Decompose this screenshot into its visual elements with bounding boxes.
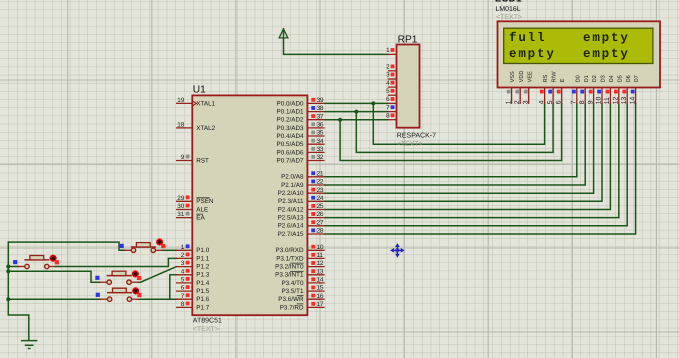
- svg-text:21: 21: [317, 170, 325, 177]
- U1 pin 34 (P0.5/AD5): [277, 138, 325, 148]
- svg-text:ALE: ALE: [196, 206, 208, 213]
- svg-text:P0.6/AD6: P0.6/AD6: [277, 149, 304, 156]
- svg-text:5: 5: [547, 100, 554, 104]
- svg-text:P3.5/T1: P3.5/T1: [281, 288, 304, 295]
- svg-text:P0.5/AD5: P0.5/AD5: [277, 141, 304, 148]
- svg-text:39: 39: [317, 97, 325, 104]
- LCD pin 11 (D4): [604, 75, 615, 104]
- svg-text:full: full: [509, 31, 546, 45]
- svg-text:P0.7/AD7: P0.7/AD7: [277, 157, 304, 164]
- U1 pin 35 (P0.4/AD4): [277, 130, 325, 140]
- svg-text:16: 16: [317, 293, 325, 300]
- LCD pin 12 (D5): [613, 75, 624, 104]
- svg-text:2: 2: [514, 100, 521, 104]
- svg-text:P2.0/A8: P2.0/A8: [281, 174, 304, 181]
- wire: U1 P2.5 to LCD D5: [325, 104, 619, 218]
- svg-text:P3.6/WR: P3.6/WR: [278, 296, 304, 303]
- U1 pin 31 (EA): [176, 211, 205, 221]
- U1 pin 29 (PSEN): [176, 195, 214, 205]
- svg-text:8: 8: [386, 113, 390, 120]
- junction node P0.0: [371, 101, 375, 105]
- svg-text:RST: RST: [196, 157, 209, 164]
- wire: P0.2 net drop to LCD E: [340, 104, 561, 161]
- wire: U1 P2.7 to LCD D7: [325, 104, 636, 234]
- svg-text:31: 31: [177, 211, 185, 218]
- U1 pin 12 (P3.2/INT0): [275, 260, 324, 270]
- LCD pin 6 (E): [555, 78, 566, 104]
- svg-text:U1: U1: [193, 85, 206, 96]
- LCD pin 2 (VDD): [514, 71, 525, 105]
- U1 pin 2 (P1.1): [176, 252, 210, 262]
- svg-text:P1.4: P1.4: [196, 280, 209, 287]
- svg-text:P1.7: P1.7: [196, 304, 209, 311]
- wire: power rail to RP1 pin 1: [284, 29, 388, 55]
- svg-text:P1.1: P1.1: [196, 255, 209, 262]
- svg-text:37: 37: [317, 113, 325, 120]
- svg-text:22: 22: [317, 179, 325, 186]
- svg-text:6: 6: [181, 285, 185, 292]
- svg-text:5: 5: [181, 277, 185, 284]
- U1 pin 13 (P3.3/INT1): [275, 268, 324, 278]
- svg-text:RP1: RP1: [398, 34, 418, 45]
- U1 pin 30 (ALE): [176, 203, 208, 213]
- U1 pin 10 (P3.0/RXD): [276, 244, 325, 254]
- svg-text:15: 15: [317, 285, 325, 292]
- wire: U1 P2.1 to LCD D1: [325, 104, 586, 185]
- U1 pin 8 (P1.7): [176, 301, 210, 311]
- svg-text:P1.6: P1.6: [196, 296, 209, 303]
- wire: button A to U1 P1.0: [162, 249, 176, 251]
- wire: button C left to bus: [8, 271, 100, 282]
- svg-text:11: 11: [317, 252, 324, 259]
- svg-text:3: 3: [181, 260, 185, 267]
- U1 pin 5 (P1.4): [176, 277, 210, 287]
- U1 pin 22 (P2.1/A9): [281, 179, 325, 189]
- svg-text:P1.2: P1.2: [196, 264, 209, 271]
- RP1 pin 5: [386, 88, 396, 95]
- RP1 pin 4: [386, 80, 396, 87]
- svg-text:3: 3: [522, 100, 529, 104]
- U1 pin 4 (P1.3): [176, 268, 210, 278]
- junction node P0.1: [354, 110, 358, 114]
- U1 pin 18 (XTAL2): [176, 122, 216, 132]
- wire: bus to button A (P1.0 net): [8, 242, 124, 250]
- svg-text:VSS: VSS: [510, 71, 516, 82]
- wire: U1 P0.0 to RP1 pin 6: [325, 102, 388, 104]
- wire: U1 P2.4 to LCD D4: [325, 104, 611, 210]
- U1 pin 6 (P1.5): [176, 285, 210, 295]
- wire: U1 P2.3 to LCD D3: [325, 104, 602, 202]
- IC U1 AT89C51 body: [192, 95, 307, 315]
- RP1 pin 7: [386, 104, 396, 111]
- wire: button B to U1 P1.1: [56, 258, 177, 266]
- wire: button D left to bus: [8, 298, 100, 300]
- svg-text:14: 14: [317, 277, 325, 284]
- svg-text:P0.1/AD1: P0.1/AD1: [277, 109, 304, 116]
- wire: U1 P0.1 to RP1 pin 7: [325, 111, 388, 113]
- svg-text:23: 23: [317, 187, 325, 194]
- svg-text:R/W: R/W: [551, 71, 558, 83]
- power symbol arrow: [279, 29, 288, 38]
- svg-text:7: 7: [181, 293, 185, 300]
- svg-text:D5: D5: [617, 75, 623, 82]
- svg-text:LM016L: LM016L: [495, 6, 520, 13]
- svg-text:35: 35: [317, 130, 325, 137]
- svg-text:4: 4: [386, 80, 390, 87]
- svg-text:P1.5: P1.5: [196, 288, 209, 295]
- U1 pin 36 (P0.3/AD3): [277, 122, 325, 132]
- U1 pin 39 (P0.0/AD0): [277, 97, 325, 107]
- svg-text:25: 25: [317, 203, 325, 210]
- svg-text:P2.4/A12: P2.4/A12: [278, 206, 304, 213]
- svg-text:26: 26: [317, 211, 325, 218]
- ground: [21, 341, 38, 349]
- wire: P0.1 net drop to LCD RW: [356, 104, 553, 153]
- push button B (P1.1): [13, 255, 59, 269]
- svg-text:D2: D2: [592, 75, 598, 82]
- wire: button C to U1 P1.2 diagonal: [139, 267, 177, 283]
- U1 pin 26 (P2.5/A13): [278, 211, 325, 221]
- U1 pin 37 (P0.2/AD2): [277, 113, 325, 123]
- svg-text:AT89C51: AT89C51: [193, 318, 222, 325]
- RP1 pin 2: [386, 64, 396, 71]
- svg-text:19: 19: [177, 97, 185, 104]
- svg-text:P1.0: P1.0: [196, 247, 209, 254]
- U1 pin 16 (P3.6/WR): [278, 293, 324, 303]
- svg-text:D3: D3: [601, 75, 607, 82]
- svg-text:27: 27: [317, 219, 325, 226]
- U1 pin 21 (P2.0/A8): [281, 170, 325, 180]
- svg-text:P2.3/A11: P2.3/A11: [278, 198, 304, 205]
- svg-text:18: 18: [177, 122, 185, 129]
- wire: P0.0 net drop to LCD RS: [373, 103, 544, 144]
- svg-text:E: E: [560, 78, 566, 82]
- svg-text:empty: empty: [583, 47, 630, 61]
- wire: button D to U1 P1.6: [139, 298, 177, 300]
- svg-text:33: 33: [317, 146, 325, 153]
- svg-text:1: 1: [505, 100, 512, 104]
- LCD pin 5 (R/W): [547, 71, 558, 104]
- svg-text:34: 34: [317, 138, 325, 145]
- svg-text:12: 12: [613, 97, 620, 105]
- svg-text:D1: D1: [584, 75, 590, 82]
- svg-text:29: 29: [177, 195, 185, 202]
- svg-text:P0.3/AD3: P0.3/AD3: [277, 125, 304, 132]
- RP1 pin 3: [386, 72, 396, 79]
- wire: U1 P2.6 to LCD D6: [325, 104, 628, 226]
- push button C (P1.2): [95, 270, 141, 284]
- U1 pin 32 (P0.7/AD7): [277, 154, 325, 164]
- U1 pin 9 (RST): [176, 154, 209, 164]
- U1 pin 28 (P2.7/A15): [278, 228, 325, 238]
- svg-text:11: 11: [604, 97, 611, 104]
- LCD pin 9 (D2): [587, 75, 598, 104]
- svg-text:empty: empty: [583, 31, 630, 45]
- LCD pin 8 (D1): [579, 75, 590, 104]
- svg-text:36: 36: [317, 122, 325, 129]
- RP1 pin 8: [386, 113, 396, 120]
- U1 pin 25 (P2.4/A12): [278, 203, 325, 213]
- svg-text:30: 30: [177, 203, 185, 210]
- junction node bus/button B: [6, 265, 10, 269]
- svg-text:P3.1/TXD: P3.1/TXD: [276, 255, 304, 262]
- svg-text:P0.4/AD4: P0.4/AD4: [277, 133, 304, 140]
- svg-text:7: 7: [386, 104, 390, 111]
- svg-text:XTAL1: XTAL1: [196, 100, 215, 107]
- svg-text:2: 2: [181, 252, 185, 259]
- svg-text:13: 13: [621, 97, 628, 105]
- svg-text:D4: D4: [609, 75, 615, 82]
- U1 pin 7 (P1.6): [176, 293, 210, 303]
- LCD pin 7 (D0): [571, 75, 582, 104]
- svg-text:D7: D7: [634, 75, 640, 82]
- svg-text:empty: empty: [509, 47, 556, 61]
- svg-text:1: 1: [386, 47, 390, 54]
- U1 pin 33 (P0.6/AD6): [277, 146, 325, 156]
- svg-text:10: 10: [317, 244, 325, 251]
- LCD screen: [504, 28, 653, 63]
- svg-text:9: 9: [181, 154, 185, 161]
- svg-text:10: 10: [596, 97, 603, 105]
- wire: bus to button B: [8, 266, 18, 268]
- wire: U1 P2.2 to LCD D2: [325, 104, 594, 194]
- svg-text:1: 1: [181, 244, 185, 251]
- push button D (P1.6): [96, 287, 142, 301]
- junction node bus/button C: [6, 269, 10, 273]
- junction node P0.2: [338, 118, 342, 122]
- svg-text:P2.1/A9: P2.1/A9: [281, 182, 304, 189]
- svg-text:2: 2: [386, 64, 390, 71]
- svg-text:<TEXT>: <TEXT>: [193, 326, 219, 333]
- svg-text:8: 8: [579, 100, 586, 104]
- RP1 pin 6: [386, 96, 396, 103]
- svg-text:P3.2/INT0: P3.2/INT0: [275, 264, 304, 271]
- svg-text:7: 7: [571, 100, 578, 104]
- svg-text:38: 38: [317, 105, 325, 112]
- U1 XTAL1 clock arrow: [193, 101, 197, 105]
- svg-text:P3.0/RXD: P3.0/RXD: [276, 247, 304, 254]
- svg-text:P1.3: P1.3: [196, 272, 209, 279]
- svg-text:<TEXT>: <TEXT>: [496, 14, 522, 21]
- LCD LM016L body: [498, 21, 661, 87]
- svg-text:EA: EA: [196, 215, 205, 222]
- svg-text:6: 6: [555, 100, 562, 104]
- LCD pin 10 (D3): [596, 75, 607, 104]
- svg-text:P3.4/T0: P3.4/T0: [281, 280, 304, 287]
- LCD pin 3 (VEE): [522, 71, 533, 104]
- svg-text:P2.6/A14: P2.6/A14: [278, 223, 304, 230]
- svg-text:<TEXT>: <TEXT>: [397, 141, 423, 148]
- svg-text:RESPACK-7: RESPACK-7: [397, 133, 436, 140]
- wire: U1 P2.0 to LCD D0: [325, 104, 577, 177]
- svg-text:14: 14: [629, 97, 636, 105]
- wire: ground bus vertical: [8, 242, 29, 340]
- RP1 pin 1: [386, 47, 396, 54]
- U1 pin 3 (P1.2): [176, 260, 210, 270]
- svg-text:13: 13: [317, 268, 325, 275]
- U1 pin 27 (P2.6/A14): [278, 219, 325, 229]
- U1 pin 1 (P1.0): [176, 244, 210, 254]
- junction node bus/button D: [6, 297, 10, 301]
- svg-text:9: 9: [587, 100, 594, 104]
- resistor pack RP1 RESPACK-7 body: [397, 45, 420, 128]
- origin marker (blue cross): [391, 244, 403, 256]
- U1 pin 38 (P0.1/AD1): [277, 105, 325, 115]
- svg-text:17: 17: [317, 301, 325, 308]
- svg-text:4: 4: [181, 268, 185, 275]
- U1 pin 23 (P2.2/A10): [278, 187, 325, 197]
- LCD pin 1 (VSS): [505, 71, 516, 104]
- svg-text:P2.5/A13: P2.5/A13: [278, 215, 304, 222]
- svg-text:3: 3: [386, 72, 390, 79]
- svg-text:VDD: VDD: [519, 71, 525, 83]
- svg-text:P0.0/AD0: P0.0/AD0: [277, 100, 304, 107]
- svg-text:P2.7/A15: P2.7/A15: [278, 231, 304, 238]
- U1 pin 11 (P3.1/TXD): [276, 252, 324, 262]
- wire: U1 P0.2 to RP1 pin 8: [325, 119, 388, 121]
- svg-text:D6: D6: [626, 75, 632, 82]
- svg-text:P3.3/INT1: P3.3/INT1: [275, 272, 304, 279]
- svg-text:LCD1: LCD1: [495, 0, 522, 4]
- svg-text:12: 12: [317, 260, 325, 267]
- U1 pin 15 (P3.5/T1): [281, 285, 324, 295]
- U1 pin 24 (P2.3/A11): [278, 195, 325, 205]
- push button A (P1.0): [120, 238, 166, 252]
- svg-text:VEE: VEE: [527, 71, 533, 82]
- svg-text:D0: D0: [575, 75, 581, 82]
- svg-text:4: 4: [538, 100, 545, 104]
- U1 pin 17 (P3.7/RD): [280, 301, 325, 311]
- U1 pin 19 (XTAL1): [176, 97, 216, 107]
- svg-text:RS: RS: [543, 74, 549, 82]
- LCD pin 14 (D7): [629, 75, 640, 104]
- svg-text:32: 32: [317, 154, 325, 161]
- svg-text:24: 24: [317, 195, 325, 202]
- LCD pin 13 (D6): [621, 75, 632, 104]
- svg-text:28: 28: [317, 228, 325, 235]
- wire: P1.3-P1.6 tie vertical: [170, 275, 177, 299]
- U1 pin 14 (P3.4/T0): [281, 277, 324, 287]
- LCD pin 4 (RS): [538, 74, 549, 104]
- svg-text:P0.2/AD2: P0.2/AD2: [277, 117, 304, 124]
- svg-text:6: 6: [386, 96, 390, 103]
- svg-text:P2.2/A10: P2.2/A10: [278, 190, 304, 197]
- svg-text:5: 5: [386, 88, 390, 95]
- svg-text:8: 8: [181, 301, 185, 308]
- svg-text:XTAL2: XTAL2: [196, 125, 215, 132]
- svg-text:P3.7/RD: P3.7/RD: [280, 304, 304, 311]
- svg-text:PSEN: PSEN: [196, 198, 214, 205]
